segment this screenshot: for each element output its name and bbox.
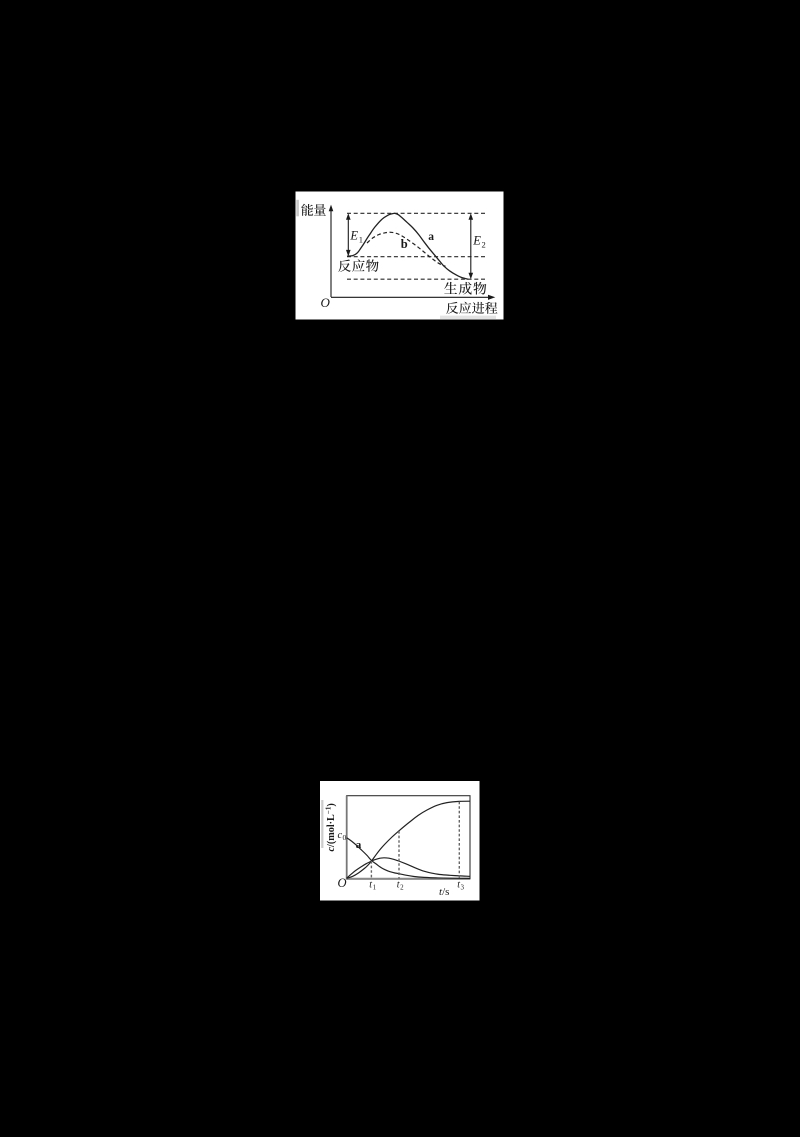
curve intermediate (rise then fall): [347, 858, 470, 878]
svg-text:2: 2: [400, 884, 404, 892]
dashed level line at products: [347, 278, 487, 280]
dashed level line at reactants: [347, 256, 487, 258]
svg-text:t/s: t/s: [439, 886, 449, 898]
y-axis: [330, 211, 332, 298]
x-axis thick gray: [347, 878, 470, 880]
dashed marker t3: [458, 802, 460, 879]
E1 double arrow: [347, 219, 349, 251]
plot frame: [347, 796, 470, 879]
dashed marker t2: [398, 831, 400, 879]
x-axis label 反应进程 (reaction progress): [446, 302, 458, 314]
label 反应物 (reactants): [338, 260, 351, 272]
svg-text:3: 3: [461, 884, 465, 892]
curve product (S-shaped rising): [347, 801, 470, 878]
decor gray smudge: [440, 316, 496, 319]
dashed marker t1: [370, 861, 372, 879]
svg-text:2: 2: [482, 240, 486, 250]
energy curve a (solid): [347, 213, 468, 279]
y-axis label 能量 (energy): [301, 204, 313, 216]
svg-text:E: E: [472, 233, 481, 247]
decor gray bar left of axis label: [296, 200, 299, 217]
dashed level line at peak: [347, 212, 487, 214]
svg-text:b: b: [401, 237, 408, 251]
energy curve b (dashed, catalyzed): [367, 232, 446, 266]
E2 double arrow: [470, 219, 472, 274]
svg-text:1: 1: [373, 884, 377, 892]
label 生成物 (products): [444, 282, 457, 294]
x-axis: [331, 296, 490, 298]
decor gray bar left of axis label: [321, 800, 323, 848]
figure 1 panel background: [296, 192, 504, 320]
svg-text:1: 1: [359, 235, 363, 245]
svg-text:O: O: [321, 295, 331, 310]
y-axis gray: [346, 796, 348, 880]
svg-text:a: a: [428, 231, 434, 243]
curve a (reactant, decreasing): [347, 838, 470, 879]
svg-text:E: E: [349, 228, 358, 242]
svg-text:0: 0: [343, 833, 347, 842]
figure 2 panel background: [320, 781, 480, 901]
svg-text:O: O: [338, 876, 347, 890]
